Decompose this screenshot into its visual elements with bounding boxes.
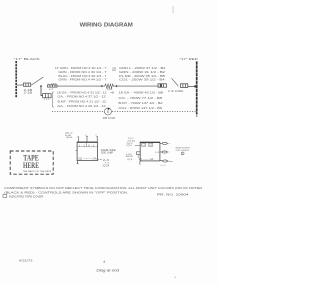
svg-text:CO1 - 870W 147 1/2 - B6: CO1 - 870W 147 1/2 - B6 (119, 106, 163, 110)
wire list lower left (57, 90, 107, 108)
splice circle 8 (104, 108, 111, 115)
svg-text:INDICATES TAPE COVER: INDICATES TAPE COVER (9, 194, 44, 198)
labels above left lamp box (65, 132, 74, 139)
circled mark (181, 152, 184, 155)
svg-text:1-1: 1-1 (79, 145, 86, 147)
faint registration tick top right (173, 6, 174, 13)
splice zigzag (105, 84, 114, 88)
bottom left tick of right box (139, 161, 141, 165)
junction dot (194, 85, 196, 87)
svg-text:GA. - FROM NO.4 26 1/2 - 12: GA. - FROM NO.4 26 1/2 - 12 (58, 104, 107, 108)
svg-text:#8 1/16: #8 1/16 (103, 117, 116, 120)
inner cells top (77, 146, 97, 148)
svg-text:CO1 - 200W 39 1/2 - B4: CO1 - 200W 39 1/2 - B4 (119, 78, 165, 82)
left box left tick (76, 149, 77, 151)
inline connector C (48, 85, 58, 87)
leader diagonal from box1 (31, 77, 44, 85)
svg-text:+8: +8 (110, 90, 115, 94)
inner top cells (142, 143, 146, 146)
drop wire to connector box 2 (41, 86, 43, 96)
svg-text:GRN - FROM NO.4 30 1/2 - 7: GRN - FROM NO.4 30 1/2 - 7 (58, 70, 107, 74)
note line 3 checkbox (3, 195, 7, 198)
svg-text:GRN L - 200W 37 1/2 - B2: GRN L - 200W 37 1/2 - B2 (119, 66, 166, 70)
leader diagonal right (172, 78, 179, 86)
svg-text:18 GA. - FROM NO.4 31 1/2 - 12: 18 GA. - FROM NO.4 31 1/2 - 12 (57, 90, 107, 94)
wire list lower left bracket (53, 92, 55, 107)
svg-text:PL.RR - 200W 35 1/2 - B8: PL.RR - 200W 35 1/2 - B8 (119, 74, 166, 78)
wire list upper left (55, 66, 107, 81)
svg-text:CO. - 700W 77 1/2 - B8: CO. - 700W 77 1/2 - B8 (119, 96, 163, 100)
right leads with bullet connectors (160, 142, 173, 165)
svg-text:"17" RED: "17" RED (180, 57, 198, 61)
svg-text:2Q ——— GA: 2Q ——— GA (139, 158, 154, 161)
svg-text:8: 8 (107, 110, 109, 114)
junction blob (40, 85, 42, 87)
labels above-left of right relay box (126, 138, 135, 147)
svg-text:LT GRN - FROM NO.4 30 1/2 - 7: LT GRN - FROM NO.4 30 1/2 - 7 (55, 66, 107, 70)
svg-text:SAME SIDE: SAME SIDE (101, 149, 117, 152)
connector B right (181, 84, 188, 88)
svg-text:PR. NO. 10004: PR. NO. 10004 (157, 193, 189, 197)
connector A right (158, 84, 167, 87)
arrow bead right-pointing (101, 85, 103, 87)
svg-text:2. IF LONG: 2. IF LONG (168, 89, 184, 93)
svg-text:36-B: 36-B (126, 156, 134, 158)
svg-text:2Q G: 2Q G (126, 145, 132, 147)
svg-text:2Q ——— GA: 2Q ——— GA (78, 158, 97, 161)
connector box 1 (ground splice) (24, 83, 31, 86)
svg-text:Diag at end: Diag at end (96, 268, 120, 272)
left lamp box (77, 142, 97, 160)
svg-text:4: 4 (103, 260, 105, 264)
svg-text:BLAC - FROM NO.4 30 1/2 - 7: BLAC - FROM NO.4 30 1/2 - 7 (58, 74, 107, 78)
svg-text:GA. - FROM NO.4 37 1/2 - 12: GA. - FROM NO.4 37 1/2 - 12 (58, 95, 107, 99)
harness bar left (17 black) (15, 61, 17, 97)
tape here box (10, 151, 53, 174)
svg-text:6/21/73: 6/21/73 (19, 259, 33, 263)
svg-text:GR BG: GR BG (66, 137, 73, 139)
wire list upper right (112, 66, 166, 81)
svg-text:SIDE LAMP: SIDE LAMP (101, 152, 114, 155)
main wire (57, 85, 101, 87)
left connector stub (137, 152, 141, 155)
connector box 2 (43, 94, 52, 98)
wire connector B to red bar (188, 86, 196, 88)
svg-text:18 GA. - 400W 43 1/2 - B8: 18 GA. - 400W 43 1/2 - B8 (119, 90, 164, 94)
labels left of right box lower (126, 154, 134, 161)
right relay box (140, 142, 160, 161)
svg-text:1 1 1: 1 1 1 (44, 99, 51, 101)
svg-text:28: 28 (112, 66, 117, 70)
svg-text:2Q GA: 2Q GA (103, 165, 110, 168)
svg-text:2-1B: 2-1B (24, 92, 33, 95)
tape loom dotted line (52, 110, 196, 112)
bottom left tick down (77, 161, 79, 164)
svg-text:K-1: K-1 (88, 145, 95, 147)
svg-text:"17" BLACK: "17" BLACK (14, 57, 40, 61)
wire: bar to connector box 1 (17, 84, 23, 86)
svg-text:WIRING DIAGRAM: WIRING DIAGRAM (80, 22, 134, 28)
svg-text:GRN - FROM NO.4 44 1/2 - 7: GRN - FROM NO.4 44 1/2 - 7 (58, 78, 107, 82)
wire list lower right (110, 90, 164, 110)
svg-text:2Q B: 2Q B (127, 159, 133, 161)
tick toward box (135, 144, 140, 146)
left lamp box pins (78, 136, 99, 142)
bottom right lead + labels (98, 159, 102, 161)
arrow bead left-pointing (115, 85, 117, 87)
svg-text:THE BACK OF THE TAPE: THE BACK OF THE TAPE (22, 170, 52, 173)
svg-text:GRN - 200W 31 1/2 - B2: GRN - 200W 31 1/2 - B2 (119, 70, 166, 74)
svg-text:COMPONENT SYMBOLS DO NOT REFLE: COMPONENT SYMBOLS DO NOT REFLECT TRUE CO… (4, 186, 202, 190)
harness bar right (17 red) (196, 61, 198, 114)
far right labels (175, 147, 190, 152)
svg-text:B.MT - FROM NO.4 21 1/2 - 12: B.MT - FROM NO.4 21 1/2 - 12 (58, 99, 107, 103)
faint dot (174, 276, 176, 278)
svg-text:HERE: HERE (23, 161, 39, 170)
svg-text:B.RY - 700W 137 1/2 - B2: B.RY - 700W 137 1/2 - B2 (119, 101, 164, 105)
